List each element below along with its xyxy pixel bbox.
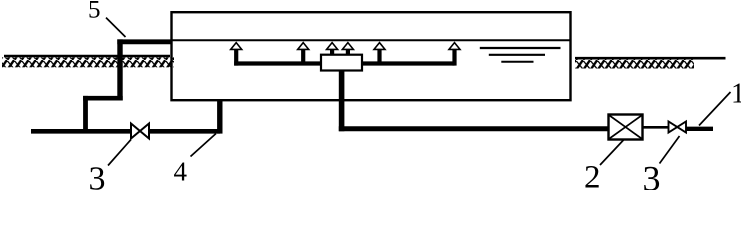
svg-text:5: 5 [88,0,101,24]
supply pipe right segment [149,129,221,134]
svg-text:4: 4 [174,157,188,187]
inlet pipe step vertical [83,96,88,134]
svg-text:2: 2 [584,160,601,191]
nozzle arrowhead 4 [342,43,353,50]
water surface mark line 1 [480,47,561,49]
drain pipe riser (item 4) [217,100,222,133]
riser stem 3 [330,49,334,57]
leader line to label 2 [600,140,624,165]
ground line left [4,55,170,58]
flow meter diagonal 1 [610,116,642,139]
riser stem 6 [452,49,456,66]
nozzle arrowhead 3 [327,43,338,50]
ground hatch right [575,60,694,69]
distribution box in tank [321,55,362,71]
svg-text:3: 3 [643,159,661,191]
nozzle arrowhead 6 [449,43,460,50]
nozzle arrowhead 2 [298,43,309,50]
svg-text:1: 1 [731,79,741,110]
tank T1 (infiltration basin outline) [172,12,571,100]
inlet pipe step horizontal [83,96,123,101]
svg-text:3: 3 [89,161,106,191]
ground line right [575,57,726,60]
outlet pipe to right [339,126,609,131]
manifold pipe in tank [234,61,454,65]
water level line in tank [172,39,571,41]
leader line to label 4 [191,134,217,157]
flow meter diagonal 2 [610,116,642,139]
outlet end pipe (item 1) [686,127,713,131]
nozzle arrowhead 5 [374,43,385,50]
riser stem 2 [301,49,305,63]
valve V1 (item 3 left) [131,124,149,139]
leader line to label 1 [699,92,731,126]
leader line to label 3 right [660,136,680,164]
leader line to label 3 left [108,140,131,166]
outlet stem from distribution box [339,71,345,132]
water surface mark line 3 [501,61,533,63]
riser stem 4 [346,49,350,57]
riser stem 1 [234,49,238,66]
leader line to label 5 [106,18,126,37]
riser stem 5 [377,49,381,63]
inlet pipe horizontal (to tank, item 5) [117,39,172,44]
valve V2 (item 3 right) [669,122,687,133]
nozzle arrowhead 1 [231,43,242,50]
inlet pipe vertical drop [117,39,122,100]
water surface mark line 2 [489,54,545,56]
supply pipe left segment [31,129,132,134]
flow meter box (item 2) [609,115,643,140]
ground hatch left [2,57,174,67]
pipe between meter and valve [643,126,670,129]
